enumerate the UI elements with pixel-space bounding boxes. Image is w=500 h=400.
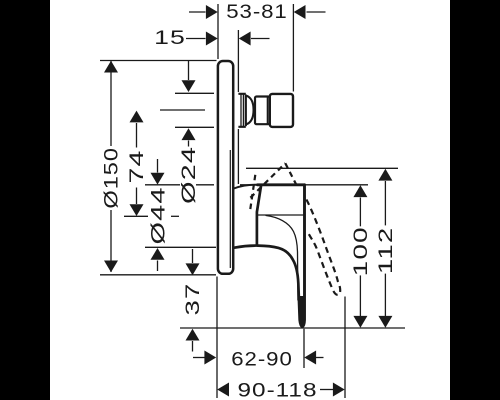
svg-text:15: 15 [154, 27, 186, 48]
svg-text:112: 112 [376, 227, 397, 274]
svg-text:62-90: 62-90 [231, 349, 292, 370]
svg-text:53-81: 53-81 [226, 1, 287, 22]
svg-text:74: 74 [126, 149, 147, 183]
svg-text:Ø24: Ø24 [178, 146, 199, 204]
svg-text:Ø44: Ø44 [148, 186, 169, 244]
svg-text:Ø150: Ø150 [100, 147, 121, 209]
svg-text:90-118: 90-118 [237, 379, 317, 400]
svg-text:37: 37 [183, 283, 204, 316]
svg-text:100: 100 [350, 226, 371, 276]
